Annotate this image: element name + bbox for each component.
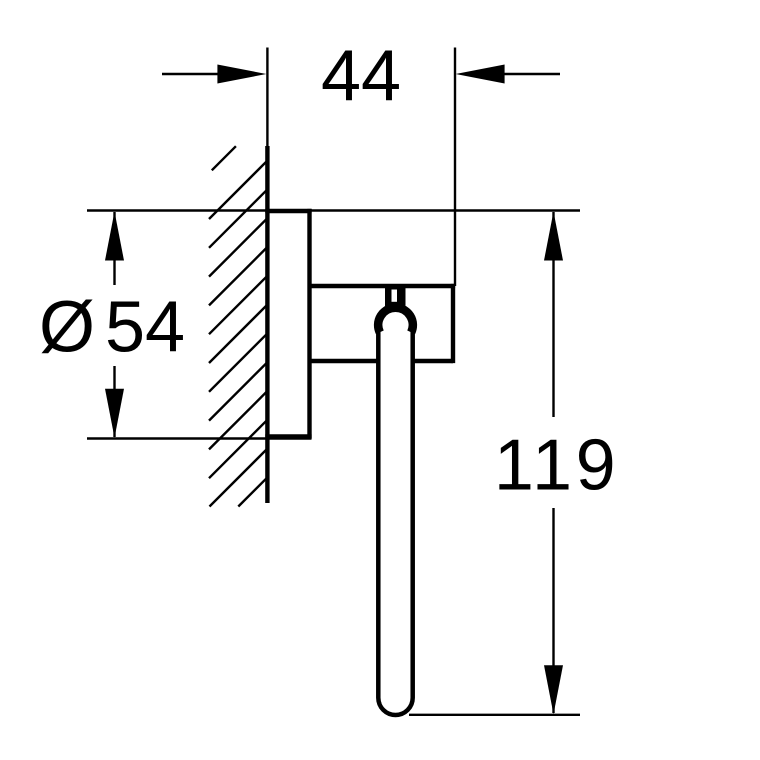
- dimension line Ø54 upper segment: [113, 212, 115, 285]
- mounting arm bracket: [310, 284, 456, 363]
- dimension leader 44 right: [492, 73, 560, 75]
- ring collar joint: [378, 308, 413, 333]
- svg-text:119: 119: [494, 425, 619, 505]
- extension line: Ø54 bottom: [87, 437, 312, 439]
- extension line: 119 bottom: [409, 714, 580, 716]
- towel ring (side view capsule): [378, 305, 412, 715]
- dimension line 119 upper segment: [552, 212, 554, 417]
- dimension line Ø54 lower segment: [113, 366, 115, 437]
- arrowhead 119 down: [544, 665, 563, 714]
- pin slot: [392, 290, 398, 302]
- arrowhead 44 left (points right): [217, 65, 266, 84]
- wall face line: [265, 146, 269, 503]
- dimension line 119 lower segment: [552, 508, 554, 713]
- pivot pin: [385, 288, 406, 306]
- svg-text:44: 44: [321, 37, 401, 117]
- extension line: top shared (Ø54 top / 119 top): [87, 209, 580, 211]
- arrowhead Ø54 down: [105, 389, 124, 438]
- wall plate (mounting rosette): [265, 209, 311, 439]
- dimension leader 44 left: [162, 73, 230, 75]
- arrowhead Ø54 up: [105, 212, 124, 261]
- extension line: 44 dim right: [454, 48, 456, 287]
- svg-text:Ø: Ø: [39, 287, 95, 367]
- arrowhead 119 up: [544, 212, 563, 261]
- extension line: wall face upper (44 dim left): [266, 48, 268, 149]
- hatch short segment top: [212, 146, 236, 170]
- wall hatching: [209, 146, 269, 506]
- arrowhead 44 right (points left): [456, 65, 505, 84]
- svg-text:54: 54: [105, 287, 185, 367]
